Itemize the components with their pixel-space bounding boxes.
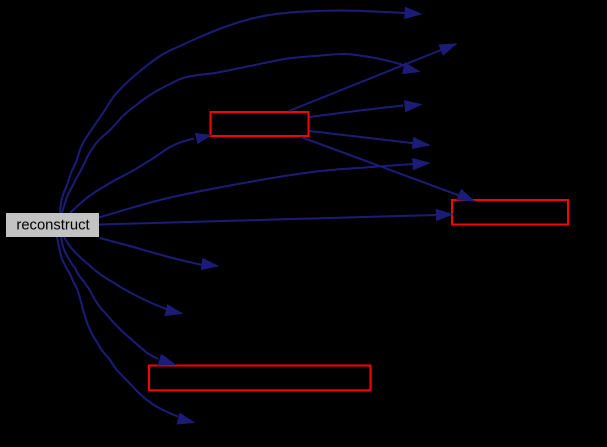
edge red node A to red node B <box>301 137 474 201</box>
edge reconstruct to red node C <box>61 237 175 365</box>
edge reconstruct to red node A <box>70 133 211 213</box>
edge reconstruct to node 2 <box>62 54 420 213</box>
edge red node A to node 3 <box>289 44 456 111</box>
edge reconstruct to node 5 <box>99 159 429 218</box>
red truncated node A (upper middle) <box>211 112 309 136</box>
red truncated node C (bottom) <box>149 366 371 391</box>
node reconstruct (current function, grey box) <box>6 213 99 237</box>
edge reconstruct to node 8 (bottom) <box>57 237 194 424</box>
red truncated node B (right) <box>452 200 568 225</box>
edge reconstruct to node 6 <box>100 238 219 270</box>
edge red node A to node 4 <box>310 101 422 117</box>
svg-text:reconstruct: reconstruct <box>16 218 89 234</box>
edge reconstruct to red node B <box>99 209 452 224</box>
edge reconstruct to node 7 <box>64 237 182 316</box>
edge red node A to node 5b <box>310 131 430 149</box>
edge reconstruct to node 1 (top) <box>60 7 421 213</box>
